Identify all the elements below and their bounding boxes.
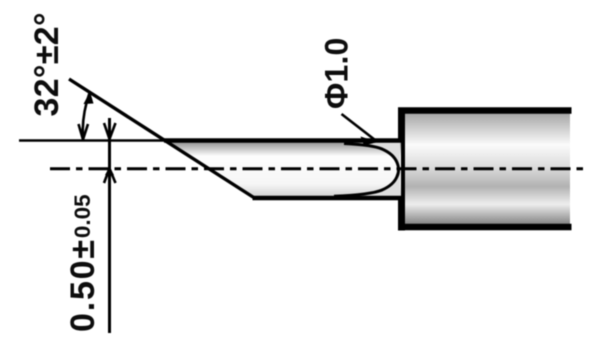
svg-text:32°±2°: 32°±2° (28, 12, 66, 116)
tip bottom outline (253, 196, 402, 201)
dimension line 0.50 (108, 118, 111, 333)
angle dimension arc (83, 93, 90, 138)
svg-text:0.50±0.05: 0.50±0.05 (64, 194, 102, 332)
leader line for dia 1.0 (342, 114, 378, 142)
arc arrow top (84, 92, 94, 105)
body cylinder fill (401, 111, 570, 227)
body bottom edge (398, 224, 572, 231)
tip transition shaded corner (334, 142, 400, 197)
bevel slant line (69, 79, 255, 198)
body top edge (398, 107, 572, 114)
tip end curve (334, 144, 399, 197)
arc arrow bottom (79, 124, 89, 140)
tip shaft fill (165, 141, 401, 199)
tip top outline (thick) (164, 138, 401, 143)
svg-text:Φ1.0: Φ1.0 (319, 37, 355, 109)
centerline (50, 167, 583, 170)
arrow down at top line (104, 123, 116, 139)
body left edge (398, 108, 405, 231)
leader arrowhead (361, 137, 379, 146)
arrow up at centerline (104, 169, 116, 184)
extension line (thin) (19, 139, 167, 142)
